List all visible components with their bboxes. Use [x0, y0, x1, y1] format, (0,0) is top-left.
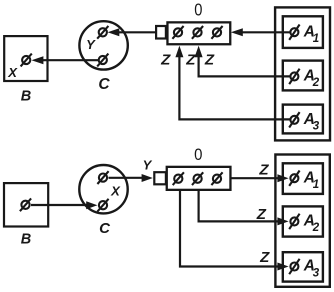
phi symbol in box B (bottom) [20, 198, 31, 211]
svg-text:Z: Z [259, 249, 270, 266]
phi A1 symbol (bottom) [289, 171, 299, 186]
arrowhead into phi lower of C (bottom) [86, 201, 97, 209]
wire B to C (bottom) [31, 204, 87, 206]
svg-text:1: 1 [313, 179, 319, 191]
arrowhead into register right side (top) [231, 28, 243, 36]
arrowhead into phi upper of C (top) [108, 28, 120, 36]
svg-text:B: B [21, 231, 31, 247]
phi A1 symbol (top) [289, 25, 299, 40]
box A2 (top) [283, 61, 323, 91]
wire register to A1 (bottom) [231, 177, 280, 179]
phi 2 in register (top) [192, 26, 203, 39]
svg-text:3: 3 [313, 121, 320, 133]
arrowhead up into register from A2 (top) [195, 46, 203, 58]
box B (bottom) [4, 183, 48, 226]
box A2 (bottom) [283, 206, 323, 236]
box A1 (top) [283, 16, 323, 48]
connector box of register (bottom) [154, 172, 166, 184]
svg-text:Z: Z [258, 162, 269, 179]
phi upper in C (bottom) [97, 171, 108, 184]
wire 0-register to C (top) [119, 31, 157, 33]
box B (top) [4, 36, 47, 81]
svg-text:X: X [7, 65, 18, 80]
outer memory box (bottom) [275, 155, 329, 287]
circle C (bottom) [79, 165, 127, 213]
phi symbol in box B (top) [21, 54, 32, 67]
phi A2 symbol (bottom) [289, 214, 299, 229]
svg-text:3: 3 [313, 267, 320, 279]
wire C to register (bottom) [109, 177, 144, 179]
circle C (top) [79, 21, 127, 69]
wire register to A2 (bottom) [199, 191, 280, 222]
svg-text:Z: Z [204, 51, 215, 68]
wire register to A3 (bottom) [180, 191, 280, 267]
wire C to B (top) [42, 59, 99, 61]
arrowhead into connector (bottom) [142, 174, 153, 182]
arrowhead into A1 (bottom) [277, 174, 288, 182]
svg-text:Z: Z [185, 51, 196, 68]
svg-text:B: B [21, 89, 31, 105]
arrowhead into A2 (bottom) [277, 217, 288, 225]
svg-text:X: X [110, 184, 121, 199]
phi 2 in register (bottom) [192, 172, 203, 185]
phi A2 symbol (top) [289, 69, 299, 84]
phi 1 in register (bottom) [173, 172, 184, 185]
box A1 (bottom) [283, 163, 323, 194]
svg-text:Y: Y [86, 37, 96, 52]
svg-text:2: 2 [312, 77, 320, 89]
svg-text:C: C [99, 220, 111, 237]
phi A3 symbol (top) [289, 112, 299, 127]
register box 0 (top) [167, 22, 230, 44]
svg-text:1: 1 [313, 33, 319, 45]
connector box of register (top) [156, 26, 166, 39]
svg-text:2: 2 [312, 222, 320, 234]
phi lower in C (bottom) [97, 199, 108, 212]
phi A3 symbol (bottom) [289, 259, 299, 274]
box A3 (bottom) [283, 252, 323, 281]
svg-text:0: 0 [194, 146, 202, 164]
svg-text:Z: Z [256, 206, 267, 223]
phi upper in C (top) [97, 26, 108, 39]
wire A2 to register (top) [199, 55, 291, 76]
svg-text:C: C [98, 76, 110, 93]
wire A1 to register (top) [242, 31, 291, 33]
phi lower in C (top) [97, 54, 108, 67]
arrowhead up into register from A3 (top) [175, 46, 183, 58]
arrowhead into A3 (bottom) [277, 263, 288, 271]
phi 1 in register (top) [172, 26, 183, 39]
register box 0 (bottom) [167, 167, 231, 190]
svg-text:0: 0 [194, 0, 202, 19]
arrowhead into B (top) [32, 56, 44, 64]
phi 3 in register (top) [211, 26, 222, 39]
outer memory box (top) [275, 7, 330, 140]
phi 3 in register (bottom) [211, 172, 222, 185]
box A3 (top) [283, 105, 323, 134]
svg-text:Z: Z [160, 51, 171, 68]
svg-text:Y: Y [143, 158, 153, 173]
wire A3 to register (top) [179, 55, 290, 119]
